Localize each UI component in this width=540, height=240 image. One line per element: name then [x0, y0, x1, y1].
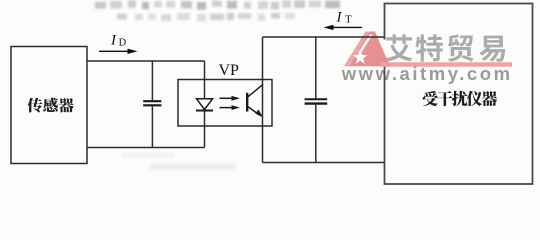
wire: sensor top to LED [87, 60, 205, 62]
wire: right loop top [263, 36, 385, 38]
capacitor C2 plates [305, 98, 328, 100]
capacitor C2 lead bottom [315, 105, 317, 163]
wire: right loop bottom [263, 162, 385, 164]
label sensor text 传感器 [27, 98, 73, 113]
svg-text:VP: VP [219, 62, 240, 79]
svg-text:T: T [345, 13, 352, 25]
interfered instrument box 受干扰仪器 [385, 4, 533, 185]
capacitor C1 lead top [151, 61, 153, 100]
current arrow IT [324, 25, 363, 30]
phototransistor base bar [246, 93, 248, 112]
optocoupler VP box [178, 80, 272, 127]
watermark red underline bar [382, 62, 513, 66]
label instrument text 受干扰仪器 [423, 91, 498, 106]
phototransistor collector [248, 84, 264, 97]
LED diode triangle [197, 99, 213, 110]
current label IT [336, 9, 353, 25]
wire: right loop left vertical [262, 37, 264, 163]
watermark text 艾特贸易 [386, 34, 506, 61]
wire: sensor bottom [87, 147, 205, 149]
watermark overlap patch hiding box edge [383, 40, 386, 67]
sensor box 传感器 [11, 47, 87, 164]
wire: LED anode vertical [204, 61, 206, 99]
capacitor C2 lead top [315, 37, 317, 98]
capacitor C1 plates [143, 100, 161, 102]
svg-text:D: D [119, 37, 127, 48]
watermark logo A [344, 32, 390, 67]
light arrow 2 [220, 105, 241, 110]
phototransistor emitter [248, 106, 264, 117]
LED cathode bar [196, 110, 213, 112]
watermark star [353, 50, 368, 65]
svg-text:I: I [110, 33, 117, 49]
faint bleed-through ghost text rows (decorative scan artifact) [95, 0, 340, 170]
light arrow 1 [220, 96, 241, 101]
current label ID [110, 33, 127, 49]
svg-text:www.aitmy.com: www.aitmy.com [341, 63, 513, 84]
wire: LED cathode vertical [204, 111, 206, 148]
svg-text:I: I [336, 9, 343, 25]
capacitor C1 lead bottom [151, 106, 153, 147]
current arrow ID [99, 49, 138, 54]
